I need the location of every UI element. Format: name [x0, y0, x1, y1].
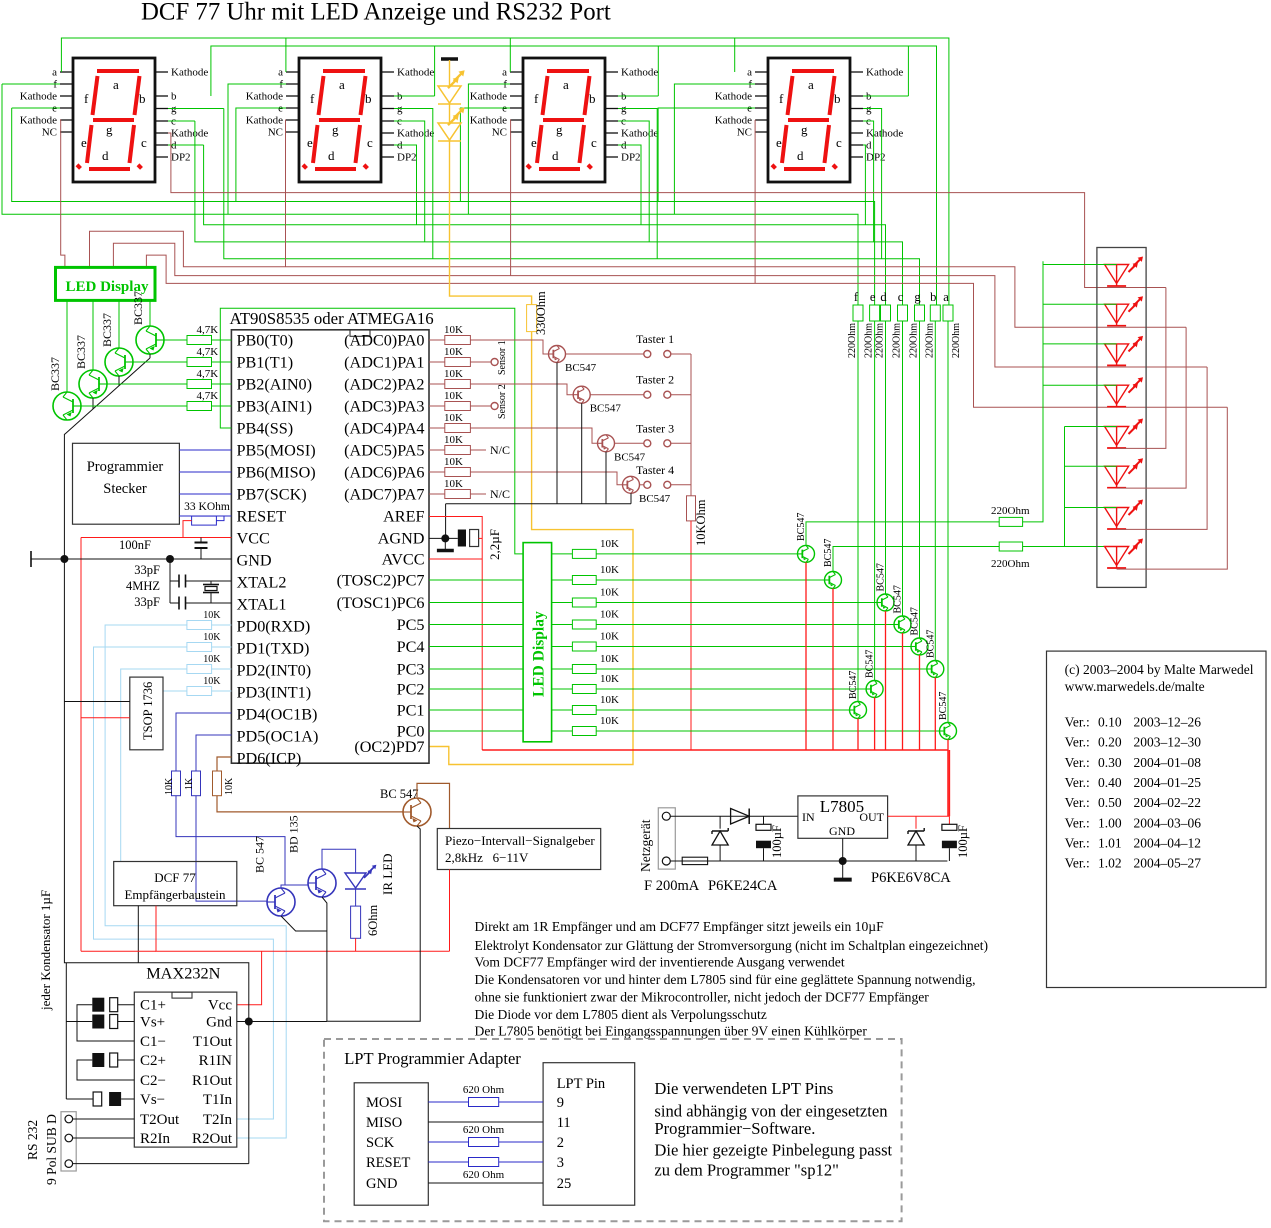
connector LED Display: [56, 267, 156, 300]
wire emitter Q6: [581, 403, 583, 504]
svg-text:(TOSC1)PC6: (TOSC1)PC6: [337, 594, 425, 612]
svg-text:a: a: [52, 67, 57, 79]
wire AGND: [429, 537, 458, 539]
wire seg-f joins: [2, 83, 60, 85]
svg-text:BC 547: BC 547: [380, 787, 419, 801]
wire PA0 to Q5: [470, 340, 548, 354]
7-segment display 2: [246, 58, 435, 182]
svg-text:MAX232N: MAX232N: [146, 964, 220, 983]
wire PD4 down: [176, 796, 308, 885]
transistor BC547 col c: [894, 616, 911, 633]
wire +5V horizontal: [482, 749, 948, 751]
wire seg-e joins: [236, 108, 286, 202]
wire taster 2 to bus: [671, 394, 691, 396]
svg-text:33pF: 33pF: [134, 563, 160, 577]
svg-text:BC547: BC547: [590, 403, 622, 415]
svg-text:Ver.:: Ver.:: [1065, 715, 1090, 730]
wire to Q16 base: [596, 709, 849, 711]
wire taster 3 to bus: [671, 442, 691, 444]
svg-text:PD5(OC1A): PD5(OC1A): [237, 728, 319, 746]
resistor 10K row 6: [552, 668, 573, 670]
svg-text:Kathode: Kathode: [20, 115, 57, 127]
terminal bar: [441, 57, 458, 61]
svg-text:C1−: C1−: [140, 1034, 166, 1050]
wire Q19 emitter: [832, 589, 834, 751]
svg-text:Netzgerät: Netzgerät: [638, 819, 653, 872]
wire PD3 light blue: [163, 690, 187, 692]
wire emitter col f: [857, 719, 859, 751]
svg-text:10K: 10K: [600, 587, 619, 599]
svg-text:0.50: 0.50: [1098, 795, 1122, 810]
svg-text:0.30: 0.30: [1098, 755, 1122, 770]
wire kathode net3: [113, 243, 1207, 367]
resistor 10K row 8: [552, 709, 573, 711]
transistor BC547 col a: [940, 723, 957, 740]
wire Q18 collector to 220Ohm A: [806, 522, 999, 546]
svg-text:2003–12–26: 2003–12–26: [1134, 715, 1202, 730]
connector DCF 77 Empfaengerbaustein: [114, 862, 237, 906]
svg-text:PB7(SCK): PB7(SCK): [237, 486, 307, 504]
svg-text:IN: IN: [802, 810, 815, 824]
svg-text:BC547: BC547: [925, 630, 936, 658]
wire L7805 GND: [842, 838, 844, 861]
svg-text:220Ohm: 220Ohm: [924, 323, 935, 358]
wire PA2 to Q6: [470, 384, 573, 395]
svg-text:Piezo−Intervall−Signalgeber: Piezo−Intervall−Signalgeber: [445, 833, 595, 848]
wire BC547 emitter diagonal: [281, 916, 327, 931]
svg-text:Taster 3: Taster 3: [636, 421, 674, 435]
wire piezo to +5V: [449, 870, 451, 952]
svg-text:NC: NC: [42, 127, 57, 139]
wire PC pin row 9: [429, 730, 523, 732]
wire BD135 collector to IR LED: [322, 849, 356, 873]
svg-text:PB4(SS): PB4(SS): [237, 420, 294, 438]
transistor Q1 BC337: [136, 326, 164, 354]
svg-text:f: f: [779, 91, 784, 106]
wire seg-g bus: [224, 109, 920, 306]
wire Q18 emitter: [805, 562, 807, 750]
svg-text:10K: 10K: [444, 478, 463, 490]
wire LED anode feeds B: [1065, 426, 1117, 428]
7-segment display 4: [715, 58, 904, 182]
wire to Q13 base: [596, 646, 911, 648]
svg-text:c: c: [367, 135, 373, 150]
svg-text:9: 9: [557, 1095, 564, 1111]
svg-text:PD4(OC1B): PD4(OC1B): [237, 706, 318, 724]
svg-text:e: e: [307, 135, 313, 150]
svg-text:4,7K: 4,7K: [197, 390, 219, 402]
resistor 4.7K PB2: [187, 380, 212, 389]
IC U3 L7805: [798, 796, 888, 838]
capacitor C3 1uF (Vs+): [92, 1015, 104, 1029]
svg-text:220Ohm: 220Ohm: [951, 323, 962, 358]
svg-text:10KOhm: 10KOhm: [694, 499, 708, 546]
svg-text:PD3(INT1): PD3(INT1): [237, 684, 312, 702]
resistor 10K PA3: [445, 402, 471, 411]
svg-text:Kathode: Kathode: [470, 91, 507, 103]
svg-text:220Ohm: 220Ohm: [909, 323, 920, 358]
wire RS232 gnd: [73, 1163, 249, 1165]
svg-text:Vcc: Vcc: [208, 998, 232, 1014]
transistor Q3 BC337: [79, 370, 107, 398]
svg-text:620 Ohm: 620 Ohm: [463, 1084, 505, 1096]
connector Netzgeraet: [658, 808, 675, 869]
wire emitter Q8: [630, 493, 632, 504]
wire TSOP vcc red: [81, 717, 130, 719]
svg-text:PD2(INT0): PD2(INT0): [237, 662, 312, 680]
transistor Q4 BC337: [53, 392, 81, 420]
transistor Q22 BD135: [308, 869, 336, 897]
svg-text:BC547: BC547: [823, 539, 834, 567]
svg-text:BC337: BC337: [100, 313, 114, 347]
wire PC pin row 2: [429, 579, 523, 581]
svg-text:a: a: [943, 290, 949, 304]
junction dot AGND: [441, 534, 449, 542]
diode P6KE6V8CA: [915, 816, 917, 829]
svg-text:BC547: BC547: [565, 362, 597, 374]
wire emitter Q5: [556, 363, 558, 504]
svg-text:R2In: R2In: [140, 1131, 171, 1147]
svg-text:b: b: [930, 290, 936, 304]
svg-text:9 Pol SUB D: 9 Pol SUB D: [44, 1114, 59, 1185]
svg-text:(ADC1)PA1: (ADC1)PA1: [344, 354, 424, 372]
resistor 10K PD2: [187, 665, 212, 674]
wire emitter to gnd rail: [327, 826, 420, 1021]
wire col e down: [874, 321, 876, 681]
svg-text:BC547: BC547: [938, 692, 949, 720]
transistor BC547 col d: [877, 594, 894, 611]
connector LED column box: [1097, 248, 1146, 588]
svg-text:2003–12–30: 2003–12–30: [1134, 735, 1202, 750]
svg-text:b: b: [365, 91, 372, 106]
svg-text:e: e: [870, 290, 876, 304]
svg-text:10K: 10K: [444, 412, 463, 424]
wire supply bottom rail: [670, 860, 947, 862]
crystal circuit: [169, 559, 171, 603]
svg-text:10K: 10K: [444, 434, 463, 446]
svg-text:a: a: [747, 67, 752, 79]
wire PD6 down: [217, 796, 403, 812]
svg-text:a: a: [278, 67, 283, 79]
svg-text:GND: GND: [366, 1176, 397, 1192]
svg-text:10K: 10K: [600, 564, 619, 576]
svg-text:10K: 10K: [203, 676, 221, 687]
svg-text:220Ohm: 220Ohm: [875, 323, 886, 358]
svg-text:BC547: BC547: [876, 563, 887, 591]
svg-text:Kathode: Kathode: [397, 128, 434, 140]
svg-text:33pF: 33pF: [134, 595, 160, 609]
wire emitter bus: [446, 503, 631, 505]
svg-text:330Ohm: 330Ohm: [534, 291, 548, 335]
wire GND LPT: [428, 1182, 543, 1184]
svg-text:P6KE6V8CA: P6KE6V8CA: [871, 870, 951, 886]
ground symbol AGND: [444, 538, 446, 549]
svg-text:(ADC3)PA3: (ADC3)PA3: [344, 398, 424, 416]
resistor 10K PD1: [187, 643, 212, 652]
LED D6: [1105, 466, 1129, 485]
svg-text:Kathode: Kathode: [621, 128, 658, 140]
svg-text:Kathode: Kathode: [246, 115, 283, 127]
svg-text:620 Ohm: 620 Ohm: [463, 1169, 505, 1181]
resistor 10K PA2: [445, 380, 471, 389]
svg-text:1.02: 1.02: [1098, 856, 1122, 871]
resistor 10K row 7: [552, 688, 573, 690]
svg-text:ohne sie funktioniert zwar der: ohne sie funktioniert zwar der Mikrocont…: [475, 990, 930, 1005]
svg-text:f: f: [534, 91, 539, 106]
svg-text:620 Ohm: 620 Ohm: [463, 1124, 505, 1136]
svg-text:2: 2: [557, 1135, 564, 1151]
wire DCF77 gnd: [137, 906, 139, 963]
svg-text:PC5: PC5: [397, 616, 425, 634]
svg-text:Elektrolyt Kondensator zur Glä: Elektrolyt Kondensator zur Glättung der …: [475, 938, 989, 954]
resistor 10K row 4: [552, 624, 573, 626]
svg-text:2004–05–27: 2004–05–27: [1134, 856, 1202, 871]
svg-text:220Ohm: 220Ohm: [991, 505, 1030, 517]
wire col f down: [857, 321, 859, 702]
wire to Q9 base: [596, 553, 797, 555]
7-segment display 1: [20, 58, 209, 182]
svg-text:f: f: [310, 91, 315, 106]
svg-text:BC547: BC547: [893, 585, 904, 613]
svg-text:GND: GND: [237, 552, 272, 570]
svg-text:Kathode: Kathode: [715, 91, 752, 103]
svg-text:0.20: 0.20: [1098, 735, 1122, 750]
svg-text:BC 547: BC 547: [253, 836, 267, 873]
resistor 4.7K PB1: [187, 358, 212, 367]
svg-text:PC4: PC4: [397, 638, 425, 656]
svg-text:Kathode: Kathode: [715, 115, 752, 127]
svg-text:2004–02–22: 2004–02–22: [1134, 795, 1202, 810]
svg-text:L7805: L7805: [820, 797, 864, 816]
wire seg-f bus: [2, 84, 858, 305]
svg-text:4,7K: 4,7K: [197, 324, 219, 336]
svg-text:220Ohm: 220Ohm: [847, 323, 858, 358]
svg-text:1.00: 1.00: [1098, 815, 1122, 830]
svg-text:Empfängerbaustein: Empfängerbaustein: [124, 887, 226, 902]
wire seg-b bus: [211, 46, 937, 305]
svg-text:a: a: [563, 77, 569, 92]
svg-text:Die verwendeten LPT Pins: Die verwendeten LPT Pins: [654, 1079, 833, 1098]
diode yellow LED1: [438, 86, 461, 103]
svg-text:220Ohm: 220Ohm: [991, 558, 1030, 570]
resistor 10K row 5: [552, 646, 573, 648]
wire 220Ohm B to LED8 and bus B: [1023, 546, 1117, 548]
diode P6KE24CA: [719, 816, 721, 829]
wire emitter diagonal to ground rail: [149, 354, 151, 358]
wire col d down: [885, 321, 887, 594]
svg-text:RESET: RESET: [366, 1155, 410, 1171]
svg-text:Kathode: Kathode: [621, 67, 658, 79]
svg-text:PB1(T1): PB1(T1): [237, 354, 294, 372]
wire BC547 collector to BD135 base: [281, 885, 285, 888]
svg-text:PC1: PC1: [397, 702, 425, 720]
svg-text:Die hier gezeigte Pinbelegung: Die hier gezeigte Pinbelegung passt: [654, 1141, 892, 1160]
svg-text:DCF 77: DCF 77: [154, 870, 196, 885]
svg-text:d: d: [866, 140, 872, 152]
capacitor C4 1uF (Vs-): [93, 1092, 102, 1106]
wire seg-e bus: [12, 108, 875, 305]
svg-text:2,8kHz 6−11V: 2,8kHz 6−11V: [445, 850, 529, 865]
resistor 10K row 3: [552, 602, 573, 604]
wire seg-g joins: [168, 108, 224, 110]
transistor Q6 BC547 (Taster 2): [573, 386, 590, 403]
svg-text:(c) 2003–2004 by Malte Marwede: (c) 2003–2004 by Malte Marwedel: [1065, 662, 1254, 677]
wire AVCC: [429, 558, 482, 560]
diode D1 (Verpolungsschutz): [731, 809, 750, 825]
wire col c down: [902, 321, 904, 616]
connector LED Display vertical: [523, 543, 552, 742]
svg-text:GND: GND: [829, 824, 855, 838]
svg-text:100µF: 100µF: [770, 825, 784, 858]
wire collector to piezo: [417, 783, 450, 828]
wire IR LED to 6Ohm: [355, 889, 357, 906]
svg-text:Ver.:: Ver.:: [1065, 775, 1090, 790]
svg-text:BC547: BC547: [848, 671, 859, 699]
wire yellow LED string top: [449, 60, 451, 86]
wire base brown: [402, 811, 404, 813]
svg-text:33 KOhm: 33 KOhm: [184, 501, 230, 513]
resistor 10K PD0: [187, 621, 212, 630]
wire emitter col d: [885, 611, 887, 750]
svg-text:10K: 10K: [444, 456, 463, 468]
wire col b down: [934, 321, 936, 661]
svg-text:(ADC5)PA5: (ADC5)PA5: [344, 442, 424, 460]
svg-text:10K: 10K: [224, 777, 235, 795]
svg-text:NC: NC: [737, 127, 752, 139]
svg-text:OUT: OUT: [859, 810, 884, 824]
svg-text:(ADC0)PA0: (ADC0)PA0: [344, 332, 424, 350]
svg-text:N/C: N/C: [490, 443, 510, 457]
wire R2In: [73, 1137, 135, 1139]
svg-text:BC337: BC337: [131, 291, 145, 325]
svg-text:RESET: RESET: [237, 508, 287, 526]
svg-text:e: e: [531, 135, 537, 150]
diode yellow LED2: [438, 123, 461, 140]
svg-text:LPT Pin: LPT Pin: [557, 1076, 606, 1092]
svg-text:Vs+: Vs+: [140, 1015, 165, 1031]
wire RESET: [179, 515, 231, 517]
svg-text:10K: 10K: [600, 538, 619, 550]
box LPT Programmier Adapter: [324, 1039, 902, 1221]
svg-text:Ver.:: Ver.:: [1065, 755, 1090, 770]
svg-text:e: e: [776, 135, 782, 150]
svg-text:Programmier: Programmier: [87, 459, 164, 475]
svg-text:BC547: BC547: [796, 513, 807, 541]
junction dots GND: [60, 555, 68, 563]
svg-text:Kathode: Kathode: [246, 91, 283, 103]
transistor Q21 BC547 navy: [267, 888, 295, 916]
svg-text:SCK: SCK: [366, 1135, 395, 1151]
svg-text:c: c: [898, 290, 904, 304]
transistor Q2 BC337: [105, 348, 133, 376]
svg-text:g: g: [556, 122, 563, 137]
transistor Q18 BC547 (LED group A): [798, 545, 815, 562]
svg-text:DP2: DP2: [397, 152, 417, 164]
svg-text:PB5(MOSI): PB5(MOSI): [237, 442, 316, 460]
wire GND rail: [31, 558, 231, 560]
svg-text:(ADC6)PA6: (ADC6)PA6: [344, 464, 424, 482]
svg-text:(OC2)PD7: (OC2)PD7: [354, 738, 424, 756]
svg-text:BC337: BC337: [74, 335, 88, 369]
svg-text:1.01: 1.01: [1098, 835, 1122, 850]
svg-text:C1+: C1+: [140, 998, 166, 1014]
svg-text:g: g: [801, 122, 808, 137]
wire taster 1 to bus: [671, 353, 691, 355]
wire MISO: [428, 1121, 543, 1123]
svg-text:zu dem Programmer "sp12": zu dem Programmer "sp12": [654, 1161, 839, 1180]
svg-text:XTAL2: XTAL2: [237, 574, 287, 592]
svg-text:www.marwedels.de/malte: www.marwedels.de/malte: [1065, 679, 1205, 694]
wire LED anode feeds A: [1043, 264, 1117, 266]
wire PC pin row 8: [429, 709, 523, 711]
svg-text:DCF 77 Uhr mit LED Anzeige und: DCF 77 Uhr mit LED Anzeige und RS232 Por…: [141, 0, 611, 26]
LED D5: [1105, 427, 1129, 446]
capacitor 2.2uF: [458, 530, 466, 547]
svg-text:(ADC4)PA4: (ADC4)PA4: [344, 420, 424, 438]
transistor Q7 BC547 (Taster 3): [598, 435, 615, 452]
wire vcc branch MAX232: [237, 951, 262, 1005]
svg-text:PB6(MISO): PB6(MISO): [237, 464, 316, 482]
wire TSOP gnd: [63, 559, 65, 702]
svg-text:c: c: [141, 135, 147, 150]
svg-text:a: a: [808, 77, 814, 92]
wire to Q14 base: [596, 668, 927, 670]
wire yellow to 330Ohm: [450, 140, 532, 305]
svg-text:10K: 10K: [444, 390, 463, 402]
svg-text:10K: 10K: [164, 777, 175, 795]
svg-text:4,7K: 4,7K: [197, 346, 219, 358]
wire col a down: [947, 321, 949, 723]
wire PC pin row 6: [429, 668, 523, 670]
LED D4: [1105, 385, 1129, 404]
connector TSOP 1736: [130, 677, 163, 750]
wire emitter col b: [934, 678, 936, 751]
svg-text:R1IN: R1IN: [199, 1053, 233, 1069]
wire emitter col c: [902, 633, 904, 750]
svg-text:BC547: BC547: [865, 650, 876, 678]
svg-text:d: d: [552, 148, 559, 163]
svg-text:4,7K: 4,7K: [197, 368, 219, 380]
svg-text:2004–04–12: 2004–04–12: [1134, 835, 1202, 850]
resistor 10K row 9: [552, 730, 573, 732]
resistor 4.7K PB3: [187, 402, 212, 411]
wire Gnd to BD135: [237, 1021, 327, 1023]
svg-text:10K: 10K: [444, 346, 463, 358]
wire 10KOhm to +5V rail: [690, 521, 692, 750]
wire seg-d joins: [168, 144, 204, 146]
svg-text:Taster 1: Taster 1: [636, 332, 674, 346]
wire T2Out: [73, 1118, 135, 1120]
svg-text:2004–03–06: 2004–03–06: [1134, 815, 1202, 830]
svg-text:100µF: 100µF: [956, 825, 970, 858]
svg-text:T1In: T1In: [203, 1092, 233, 1108]
svg-text:sind abhängig von der eingeset: sind abhängig von der eingesetzten: [654, 1102, 888, 1121]
svg-text:Kathode: Kathode: [20, 91, 57, 103]
wire seg-d bus: [204, 145, 886, 305]
resistor 10K PA0: [445, 336, 471, 345]
resistor 10K PD3: [187, 687, 212, 696]
fuse F 200mA: [682, 857, 707, 864]
svg-text:10K: 10K: [203, 654, 221, 665]
svg-text:N/C: N/C: [490, 487, 510, 501]
box Piezo Signalgeber: [437, 829, 600, 870]
svg-text:4MHZ: 4MHZ: [126, 579, 160, 593]
wire VCC red: [183, 521, 192, 538]
svg-text:XTAL1: XTAL1: [237, 596, 287, 614]
wire emitter col g: [919, 655, 921, 750]
wire PC pin row 5: [429, 646, 523, 648]
transistor BC547 col e: [866, 681, 883, 698]
